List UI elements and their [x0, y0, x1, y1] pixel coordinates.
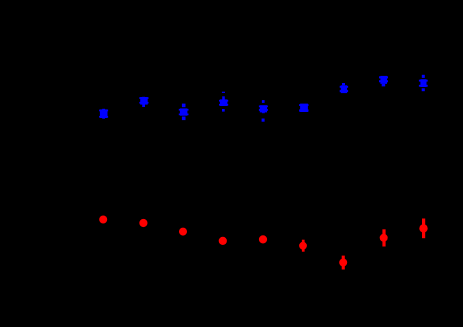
blue data point B3 — [179, 104, 189, 121]
blue data point B4 — [219, 92, 228, 112]
red data point R9 — [419, 219, 427, 239]
blue data point B8 — [379, 76, 388, 87]
red data point R3 — [179, 228, 187, 236]
red data point R4 — [219, 237, 227, 245]
red data point R1 — [99, 216, 107, 224]
blue data point B9 — [419, 75, 428, 91]
red data point R2 — [139, 219, 147, 227]
blue data point B1 — [99, 109, 108, 119]
blue data point B7 — [340, 83, 348, 93]
red data point R8 — [380, 229, 388, 246]
blue data point B2 — [139, 97, 148, 107]
red data point R7 — [339, 256, 347, 270]
red data point R6 — [299, 240, 307, 252]
blue data point B6 — [299, 104, 308, 112]
blue data point B5 — [259, 100, 268, 122]
red data point R5 — [259, 235, 267, 243]
